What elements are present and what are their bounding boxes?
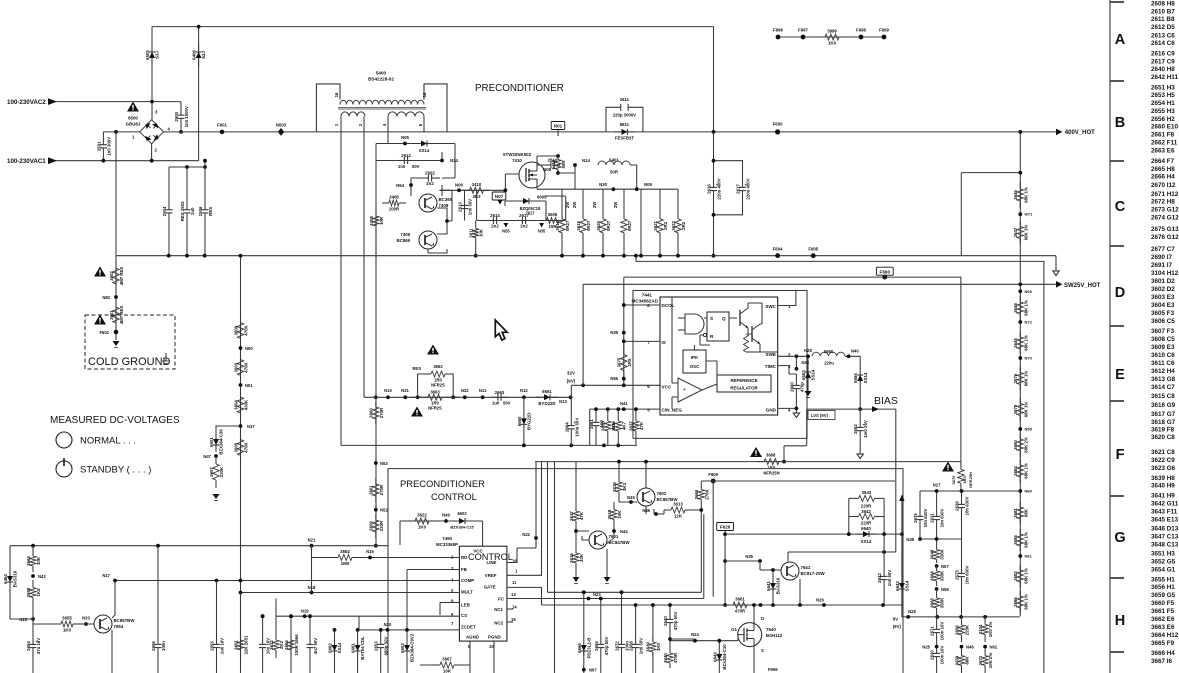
wire 7601 emitter [582, 536, 607, 577]
resistor 3656 220K [954, 618, 969, 642]
wire 400V rail left [103, 131, 139, 133]
svg-text:N14: N14 [582, 158, 590, 163]
svg-text:7: 7 [647, 340, 650, 345]
svg-text:3620 C8: 3620 C8 [1151, 434, 1175, 441]
junction N09 [635, 187, 639, 191]
wire group box 7441 [633, 291, 807, 439]
svg-text:N33: N33 [82, 616, 90, 621]
wire collector bus y552 [788, 551, 896, 553]
junction cap2501 [102, 159, 106, 163]
resistor 3667 10K [432, 657, 462, 673]
svg-text:3610 C6: 3610 C6 [1151, 352, 1175, 359]
svg-text:2n2: 2n2 [520, 224, 528, 229]
svg-text:2506: 2506 [198, 206, 203, 216]
wire W2 [636, 256, 1044, 673]
svg-text:FB: FB [461, 567, 467, 572]
svg-text:220u: 220u [824, 361, 834, 366]
svg-text:BZX384-C15: BZX384-C15 [450, 525, 474, 530]
svg-text:N06: N06 [455, 182, 463, 187]
wire BIAS [807, 408, 896, 410]
svg-text:1n0 50V: 1n0 50V [468, 199, 473, 216]
svg-text:RES: RES [208, 207, 213, 216]
transistor Q internal 2 [751, 326, 753, 342]
svg-text:A: A [1115, 32, 1126, 48]
svg-text:1K0: 1K0 [63, 628, 72, 633]
svg-text:3604: 3604 [233, 400, 238, 410]
svg-text:(9V): (9V) [567, 379, 576, 384]
svg-text:3606: 3606 [548, 212, 558, 217]
svg-text:4: 4 [382, 123, 387, 126]
svg-text:N40: N40 [851, 349, 859, 354]
wire gate drive [440, 174, 520, 190]
svg-text:2611: 2611 [620, 97, 630, 102]
svg-text:3621 C8: 3621 C8 [1151, 449, 1175, 456]
wire drain [557, 130, 559, 137]
wire 32V bus [364, 396, 571, 398]
svg-text:220u 400V: 220u 400V [746, 178, 751, 199]
transistor 7602 BC857BW [637, 488, 678, 506]
svg-text:1M0: 1M0 [341, 561, 350, 566]
legend NORMAL symbol [56, 432, 72, 448]
junction N49 [444, 519, 448, 523]
svg-text:GND: GND [766, 408, 777, 413]
svg-text:N39: N39 [610, 330, 618, 335]
resistor 3617 47K [569, 505, 584, 527]
input terminal 100-230VAC1 [48, 157, 57, 164]
capacitor 2640 470p 50V [663, 611, 678, 630]
svg-text:3647: 3647 [1013, 227, 1018, 237]
svg-text:3636: 3636 [611, 421, 616, 431]
wire n24 link [670, 638, 695, 640]
wire AC1 riser to top bus [198, 27, 200, 161]
svg-text:N19: N19 [301, 609, 309, 614]
resistor 3637 47K [629, 415, 644, 437]
wire lower return y445 [341, 444, 637, 446]
svg-text:3680: 3680 [1013, 440, 1018, 450]
svg-text:N12: N12 [520, 388, 528, 393]
svg-text:2608: 2608 [629, 641, 634, 651]
wire pin7 IS [624, 340, 660, 342]
transistor 7409 BC869 [419, 231, 437, 249]
svg-text:F620: F620 [720, 525, 731, 530]
svg-text:3K3: 3K3 [622, 482, 627, 491]
svg-text:680p 50V: 680p 50V [384, 636, 389, 655]
junction N39 [622, 331, 626, 335]
junction N51 [239, 383, 243, 387]
svg-text:3661 F5: 3661 F5 [1151, 608, 1175, 615]
svg-text:10n 630V: 10n 630V [923, 508, 928, 527]
test point F601 [220, 130, 225, 135]
wire pin1 VREF [507, 462, 542, 576]
flipflop SQ R [707, 312, 729, 341]
svg-text:1u0: 1u0 [492, 401, 500, 406]
svg-text:470K: 470K [244, 324, 249, 335]
wire divider drop x116 [115, 132, 117, 256]
svg-text:3: 3 [451, 566, 454, 571]
svg-text:4: 4 [168, 127, 171, 132]
svg-text:6505: 6505 [145, 50, 150, 60]
svg-text:1u0 16V: 1u0 16V [220, 638, 225, 655]
junction N48 [960, 645, 964, 649]
svg-text:3647 C13: 3647 C13 [1151, 534, 1179, 541]
resistor 3685 68K 1% [1013, 529, 1028, 551]
gate AND U7441 [685, 314, 704, 334]
resistor 3622b 1K0 wire [400, 521, 483, 546]
svg-text:330K: 330K [940, 597, 945, 608]
svg-text:STW20NK50Z: STW20NK50Z [503, 152, 532, 157]
svg-text:7408: 7408 [439, 203, 449, 208]
svg-text:6666: 6666 [577, 643, 582, 653]
wire DCOL riser [623, 277, 625, 385]
svg-text:2613 C6: 2613 C6 [1151, 32, 1175, 39]
junction N43 [31, 574, 35, 578]
svg-text:3623 G6: 3623 G6 [1151, 465, 1176, 472]
wire SWE TIMC pins [778, 356, 797, 374]
junction N56 [622, 377, 626, 381]
junction N10 [386, 395, 390, 399]
svg-text:2677 C7: 2677 C7 [1151, 246, 1175, 253]
svg-text:BC869: BC869 [397, 238, 411, 243]
svg-text:2676 G12: 2676 G12 [1151, 234, 1179, 241]
wire 2655b drop [216, 581, 218, 641]
wire 7654 [33, 581, 115, 673]
svg-text:3645: 3645 [1013, 338, 1018, 348]
svg-text:2691 I7: 2691 I7 [1151, 262, 1173, 269]
svg-text:5400: 5400 [376, 71, 387, 76]
svg-text:F609: F609 [708, 472, 718, 477]
svg-text:2664: 2664 [564, 422, 569, 432]
wire y605 junctions [798, 603, 802, 607]
svg-text:3615: 3615 [576, 220, 581, 230]
svg-text:H: H [1115, 613, 1125, 629]
svg-text:S3J: S3J [155, 51, 160, 59]
svg-text:6406: 6406 [192, 50, 197, 60]
junction N57 [935, 564, 939, 568]
svg-text:N10: N10 [384, 388, 392, 393]
resistor 3614 0R27 2W [555, 196, 570, 256]
wire divider column [240, 256, 242, 673]
wire pin stubs nc [507, 608, 513, 610]
capacitor 2617 220u 400V [736, 168, 751, 210]
resistor 3602 4M7 RES [109, 258, 124, 294]
svg-text:3681: 3681 [1013, 508, 1018, 518]
resistor 3619 3K3 [612, 477, 627, 497]
ground cold [113, 341, 120, 348]
diode 6666 PDZ3L2-B [577, 638, 592, 659]
svg-text:220p 3000V: 220p 3000V [613, 113, 637, 118]
junction N37 [239, 424, 243, 428]
svg-text:N17: N17 [102, 573, 110, 578]
wire pin11 GATE [507, 587, 542, 605]
svg-text:FC: FC [498, 597, 505, 602]
svg-text:100R: 100R [389, 207, 400, 212]
wire pin5 CIN_NEG [590, 408, 660, 410]
junction ladder top [1018, 282, 1022, 286]
svg-text:2674 G12: 2674 G12 [1151, 215, 1179, 222]
svg-text:2662: 2662 [853, 424, 858, 434]
svg-text:1n0 50V: 1n0 50V [639, 638, 644, 655]
capacitor 2506 RES [198, 167, 213, 256]
wire 3656 col [961, 617, 963, 620]
svg-text:3664 H12: 3664 H12 [1151, 632, 1179, 639]
svg-text:N20: N20 [384, 622, 392, 627]
svg-text:3662: 3662 [433, 364, 443, 369]
wire cold chain [115, 256, 117, 340]
svg-text:3612 H4: 3612 H4 [1151, 368, 1175, 375]
svg-text:2640: 2640 [663, 616, 668, 626]
capacitor 2616 220u 400V [707, 168, 722, 210]
ground IC 7441 [793, 413, 799, 418]
svg-text:BAS316: BAS316 [13, 570, 18, 587]
resistor 3621 2R2 [653, 196, 668, 256]
svg-text:1K0: 1K0 [418, 525, 427, 530]
svg-text:2665 H8: 2665 H8 [1151, 166, 1175, 173]
junction N23 [587, 597, 591, 601]
svg-text:7441: 7441 [642, 293, 653, 298]
wire ladder column [1019, 132, 1021, 616]
capacitor 2610 100 [545, 158, 560, 169]
svg-text:2: 2 [155, 148, 158, 153]
svg-text:F998: F998 [856, 28, 866, 33]
warning triangle bridge [127, 102, 139, 112]
svg-text:68K 1%: 68K 1% [1023, 335, 1028, 351]
svg-text:400V_HOT: 400V_HOT [1065, 130, 1095, 136]
resistor 3648 330K [929, 546, 944, 563]
wire to N09 [630, 165, 637, 189]
block IPK OSC [683, 350, 706, 373]
svg-text:2608 H8: 2608 H8 [1151, 0, 1175, 7]
legend STANDBY symbol [56, 461, 72, 477]
svg-text:SWE: SWE [766, 352, 776, 357]
junction N34 [440, 159, 444, 163]
svg-text:1: 1 [132, 135, 135, 140]
svg-text:6601: 6601 [209, 437, 214, 447]
resistor 3611 10K [469, 224, 484, 242]
svg-text:7640: 7640 [766, 627, 776, 632]
wire AC2 input [54, 101, 181, 103]
capacitor 2651 10n 16V [259, 638, 271, 655]
svg-text:3606 C5: 3606 C5 [1151, 318, 1175, 325]
junction N67 [582, 668, 586, 672]
resistor 3623 0R27 2W [621, 196, 632, 256]
svg-text:10n 630V: 10n 630V [965, 565, 970, 584]
svg-text:3601 D2: 3601 D2 [1151, 278, 1175, 285]
svg-text:3619 F8: 3619 F8 [1151, 427, 1175, 434]
junction N47 [214, 454, 218, 458]
svg-text:N67: N67 [589, 668, 597, 673]
resistor 3615 0R27 2W [576, 196, 591, 256]
svg-text:N70: N70 [1025, 356, 1033, 361]
node N72 [1018, 320, 1022, 324]
ground 3616 [573, 577, 580, 584]
wire bridge pin3 vertical [151, 27, 153, 120]
svg-text:6642: 6642 [895, 581, 900, 591]
svg-text:3663: 3663 [430, 390, 440, 395]
capacitor 2666 4n7 50V [307, 638, 319, 655]
junction N82 [114, 295, 118, 299]
junction N24 [693, 639, 697, 643]
wire pin5 MULT [240, 592, 460, 594]
svg-text:3648 C13: 3648 C13 [1151, 542, 1179, 549]
node N61 [1018, 554, 1022, 558]
svg-text:N52: N52 [380, 508, 388, 513]
junction N15 [31, 617, 35, 621]
svg-text:3659: 3659 [369, 521, 374, 531]
svg-text:3662 E6: 3662 E6 [1151, 616, 1175, 623]
svg-text:2617 C9: 2617 C9 [1151, 58, 1175, 65]
svg-text:RES: RES [412, 366, 421, 371]
node N01 [551, 122, 565, 130]
wire 3613 [664, 510, 701, 514]
svg-text:470p 50V: 470p 50V [604, 636, 609, 655]
svg-text:10K 2%: 10K 2% [988, 653, 993, 669]
wire pin4 drop [387, 132, 389, 144]
wire sense bus [537, 188, 678, 190]
svg-text:10K: 10K [479, 228, 484, 237]
svg-text:1n0: 1n0 [398, 164, 406, 169]
svg-text:N35: N35 [745, 554, 753, 559]
svg-text:N26: N26 [816, 598, 824, 603]
svg-text:N30: N30 [599, 182, 607, 187]
svg-text:68K: 68K [1023, 508, 1028, 517]
inductor 5660 220u [812, 349, 845, 357]
node N07 [492, 192, 506, 200]
svg-text:330K: 330K [940, 570, 945, 581]
resistor 3622 1K0 [404, 513, 440, 530]
svg-text:SW25V_HOT: SW25V_HOT [1064, 283, 1101, 289]
svg-text:3658: 3658 [26, 587, 31, 597]
svg-text:GBU8J: GBU8J [126, 122, 141, 127]
node F690 [876, 267, 893, 275]
svg-text:3654 G1: 3654 G1 [1151, 567, 1176, 574]
section box control [388, 469, 903, 673]
resistor 3670 1K0 NFR25H [958, 462, 964, 491]
svg-text:F996: F996 [773, 28, 783, 33]
capacitor 2611 220p 3000V [620, 104, 622, 111]
junction N11 [481, 395, 485, 399]
svg-text:2675 G13: 2675 G13 [1151, 226, 1179, 233]
svg-text:68K 1%: 68K 1% [1023, 402, 1028, 418]
wire AC1 input [54, 160, 199, 162]
wire W3 F690 line [624, 277, 961, 462]
svg-text:2655: 2655 [594, 641, 599, 651]
svg-text:CS: CS [461, 613, 467, 618]
svg-text:22K 2651: 22K 2651 [244, 635, 249, 654]
wire zcdet corner [358, 616, 360, 630]
svg-text:3609: 3609 [233, 325, 238, 335]
svg-text:3671: 3671 [978, 655, 983, 665]
svg-text:SS14: SS14 [419, 148, 430, 153]
svg-text:N53: N53 [380, 461, 388, 466]
wire pin16 LINE [507, 462, 536, 563]
svg-text:3605: 3605 [233, 442, 238, 452]
svg-text:6611: 6611 [620, 122, 630, 127]
svg-text:2W: 2W [592, 202, 597, 208]
svg-text:100u 50V: 100u 50V [574, 418, 579, 437]
svg-text:2663 E6: 2663 E6 [1151, 148, 1175, 155]
junction N16 [368, 556, 372, 560]
svg-text:G1: G1 [731, 627, 737, 632]
resistor 3652 1M0 [330, 549, 360, 566]
diode 6661 BYD22D [536, 389, 558, 406]
svg-text:COMP: COMP [461, 578, 474, 583]
svg-text:6660: 6660 [517, 416, 522, 426]
IC U7460 MC33368P [436, 536, 518, 649]
wire bias drop [859, 449, 861, 454]
svg-text:6: 6 [647, 384, 650, 389]
svg-text:2642: 2642 [877, 573, 882, 583]
CIN network caps [590, 409, 636, 445]
junctions W1 [167, 254, 171, 258]
svg-text:N54: N54 [396, 183, 404, 188]
svg-text:3640 H9: 3640 H9 [1151, 483, 1175, 490]
svg-text:7: 7 [451, 621, 454, 626]
diode 6642 SS14 [895, 578, 910, 594]
svg-text:68K 1%: 68K 1% [1023, 187, 1028, 203]
wire 6663 gnd [807, 386, 809, 391]
svg-text:3641 H9: 3641 H9 [1151, 493, 1175, 500]
svg-text:3660: 3660 [369, 408, 374, 418]
wire gate bus y605 [542, 604, 902, 606]
svg-text:2501: 2501 [96, 141, 101, 151]
inductor 5410 50R [551, 156, 566, 173]
svg-text:9V: 9V [893, 617, 898, 622]
svg-text:3604 E3: 3604 E3 [1151, 302, 1175, 309]
svg-text:2614 C6: 2614 C6 [1151, 40, 1175, 47]
wire SWC pin [778, 291, 796, 306]
svg-text:3666: 3666 [284, 640, 289, 650]
svg-text:3642 G11: 3642 G11 [1151, 501, 1179, 508]
svg-text:+: + [683, 387, 686, 392]
svg-text:3686: 3686 [1013, 597, 1018, 607]
svg-text:2651 H3: 2651 H3 [1151, 84, 1175, 91]
svg-text:3656: 3656 [954, 625, 959, 635]
resistor 3616 33K [569, 546, 584, 570]
svg-text:3655 H1: 3655 H1 [1151, 577, 1175, 584]
wire ff links [700, 318, 737, 345]
wire driver [411, 178, 455, 196]
svg-text:BSH112: BSH112 [766, 633, 783, 638]
capacitor 2504 RES [162, 167, 173, 256]
svg-text:N82: N82 [102, 295, 110, 300]
svg-text:F600: F600 [773, 122, 783, 127]
wire 3667 [420, 664, 470, 666]
svg-text:3612: 3612 [269, 640, 274, 650]
svg-text:33K: 33K [579, 553, 584, 562]
resistor 3665 270K [694, 481, 709, 508]
resistor 3639 1K0 [646, 638, 661, 656]
svg-text:0R27: 0R27 [606, 220, 611, 231]
wire long column x554 [554, 462, 556, 673]
svg-text:68K 1%: 68K 1% [1023, 463, 1028, 479]
svg-text:S3J: S3J [201, 51, 206, 59]
diode 6641 BAS316 [766, 574, 781, 598]
wire VCC feed [571, 384, 660, 386]
svg-text:N69: N69 [1025, 289, 1033, 294]
svg-text:100R 2666: 100R 2666 [294, 634, 299, 656]
test point F996 [776, 35, 781, 40]
svg-text:N55: N55 [502, 229, 510, 234]
wire pin13 FC [507, 514, 704, 599]
svg-text:G: G [1114, 530, 1125, 546]
wire bridge pin2 to AC1 [151, 144, 153, 161]
svg-text:6665: 6665 [853, 373, 858, 383]
svg-text:47K: 47K [639, 421, 644, 430]
junction N25 [935, 645, 939, 649]
capacitor 2671 100n 16V [930, 621, 945, 640]
svg-text:13: 13 [511, 592, 516, 597]
svg-text:3104: 3104 [978, 624, 983, 634]
